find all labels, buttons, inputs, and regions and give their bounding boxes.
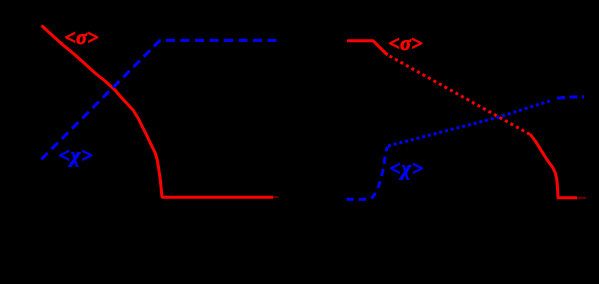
svg-text:<χ>: <χ> <box>59 145 93 167</box>
right sigma faint tail <box>577 197 586 199</box>
left sigma faint tail <box>273 196 279 198</box>
left panel sigma curve (red solid) <box>42 26 274 198</box>
svg-text:<χ>: <χ> <box>389 158 423 180</box>
svg-text:<σ>: <σ> <box>389 33 423 55</box>
right chi dashed top <box>557 97 584 98</box>
right panel sigma solid top <box>347 41 388 55</box>
left panel chi curve (blue dashed) <box>41 40 280 159</box>
right chi dashed bottom <box>347 147 388 199</box>
svg-text:<σ>: <σ> <box>65 27 99 49</box>
right sigma solid bottom <box>530 134 577 198</box>
right chi dotted middle <box>388 100 552 146</box>
right sigma dotted middle <box>390 56 532 135</box>
